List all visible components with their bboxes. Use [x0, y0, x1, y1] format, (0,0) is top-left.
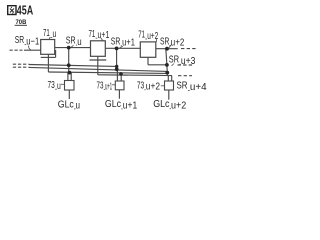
- shift-register stage box 71_u+2: [140, 42, 156, 57]
- underscore of GLc_u+1: [121, 108, 122, 110]
- riser pair into 73_u+2: [168, 76, 171, 81]
- rail A (reset line from stage u-2), dashed left entry: [13, 63, 29, 65]
- rail C from box 71_u bottom tap to SR_u+2 vertical: [48, 72, 167, 73]
- underscore of 73_u+1: [104, 89, 105, 91]
- leader SR_u: [71, 45, 74, 47]
- underscore of SR_u-1: [25, 44, 27, 46]
- kanji 図 drawn as paths: [8, 6, 16, 15]
- leader 73_u: [61, 83, 65, 85]
- bottom tap vertical of 71_u: [47, 54, 49, 72]
- junction dot SR_u+1 on wire: [115, 47, 119, 51]
- wire SR_u-1 input solid: [24, 49, 41, 51]
- svg-text:SR: SR: [111, 36, 121, 47]
- wire SR_u+1: [105, 47, 140, 49]
- riser from under-line to SR_u wire: [55, 50, 57, 57]
- svg-text:u: u: [57, 81, 61, 92]
- underscore of SR_u+1: [121, 45, 122, 47]
- svg-text:u+2: u+2: [146, 82, 161, 93]
- shift-register stage box 71_u: [41, 40, 55, 55]
- leader 73_u+2: [161, 85, 165, 87]
- svg-text:u: u: [77, 37, 81, 48]
- svg-text:73: 73: [137, 81, 145, 92]
- svg-text:GLc: GLc: [105, 99, 121, 110]
- svg-text:u+1: u+1: [123, 101, 138, 112]
- svg-text:u−1: u−1: [26, 36, 39, 47]
- svg-text:u+1: u+1: [105, 81, 112, 92]
- underscore of GLc_u: [74, 108, 75, 110]
- figure title 図45A: [8, 2, 33, 17]
- leader SR_u+2: [169, 45, 172, 48]
- junction dot rail B at SR_u+1 vertical: [115, 67, 119, 71]
- vertical SR_u+1 branch to 73_u+1: [116, 48, 119, 81]
- leader 71_u+2: [156, 39, 158, 42]
- svg-text:GLc: GLc: [58, 99, 74, 110]
- underscore of 73_u+2: [144, 89, 145, 91]
- svg-text:SR: SR: [177, 81, 188, 92]
- under-line below box 71_u: [41, 56, 56, 58]
- junction dot rail D at 73_u+1 riser: [119, 72, 123, 76]
- svg-text:71: 71: [43, 28, 50, 39]
- bottom tap vertical of 71_u+2: [147, 57, 149, 65]
- junction dot SR_u+2 on wire: [165, 47, 169, 51]
- leader 71_u+1: [101, 38, 103, 41]
- rail D dashed exit (SR_u+4): [178, 75, 192, 77]
- svg-text:u+2: u+2: [171, 37, 185, 48]
- underline of 70B: [15, 24, 27, 26]
- rail B solid part: [29, 67, 167, 71]
- underscore of SR_u: [76, 44, 77, 46]
- svg-text:GLc: GLc: [153, 99, 169, 110]
- svg-text:u: u: [76, 101, 81, 112]
- shift-register stage box 71_u+1: [91, 41, 106, 57]
- leader 71_u: [48, 37, 50, 39]
- underscore of SR_u+3: [179, 63, 180, 65]
- junction dot rail E end at SR_u+2 vertical: [165, 63, 169, 67]
- buffer box 73_u+2: [165, 81, 174, 90]
- wire SR_u-1 input dashed: [10, 49, 23, 51]
- junction dot SR_u on wire: [67, 46, 71, 50]
- underscore of 71_u: [50, 36, 52, 38]
- svg-text:u+2: u+2: [147, 31, 158, 42]
- junction dot rail A end at SR_u+1 vertical: [115, 65, 118, 68]
- output GLc_u+1 vertical: [118, 90, 120, 99]
- svg-text:u+3: u+3: [181, 56, 196, 67]
- output GLc_u+2 vertical: [168, 90, 170, 100]
- wire SR_u+2: [156, 48, 178, 50]
- svg-text:71: 71: [138, 30, 145, 41]
- svg-text:SR: SR: [160, 36, 169, 47]
- svg-text:SR: SR: [66, 36, 76, 47]
- svg-text:71: 71: [89, 29, 96, 40]
- svg-text:SR: SR: [169, 55, 179, 66]
- rail E from box 71_u+2 bottom tap: [148, 64, 167, 66]
- riser 73_u+1 second input from rail D: [120, 73, 122, 81]
- riser pair into 73_u: [68, 73, 71, 81]
- under-line below box 71_u+1: [90, 59, 107, 61]
- leader SR_u+3: [172, 64, 175, 66]
- rail B dashed left entry: [13, 66, 29, 68]
- wire SR_u: [55, 47, 91, 49]
- wire SR_u+2 dashed continuation: [181, 48, 197, 50]
- junction dot rail C at 73_u risers: [68, 71, 72, 75]
- svg-text:73: 73: [48, 80, 56, 91]
- svg-text:73: 73: [97, 80, 104, 91]
- underscore of SR_u+4: [188, 89, 190, 91]
- vertical SR_u branch to 73_u: [68, 48, 70, 73]
- underscore of 71_u+2: [145, 38, 147, 40]
- svg-text:u+1: u+1: [122, 38, 135, 49]
- underscore of GLc_u+2: [170, 108, 171, 110]
- output GLc_u vertical: [68, 90, 70, 99]
- svg-text:45A: 45A: [17, 2, 33, 17]
- underscore of 73_u: [55, 88, 57, 90]
- buffer box 73_u: [65, 81, 75, 91]
- junction dot rails B/C end at SR_u+2 vertical: [165, 71, 169, 75]
- svg-text:u: u: [53, 29, 57, 40]
- bottom tap vertical of 71_u+1: [97, 56, 99, 75]
- svg-text:u+2: u+2: [171, 101, 187, 112]
- leader SR_u-1: [29, 46, 32, 51]
- junction dot rail A / SR_u vertical: [67, 63, 71, 67]
- rail E dashed exit (SR_u+3): [178, 64, 195, 66]
- rail A solid part: [29, 65, 117, 67]
- underscore of SR_u+2: [170, 45, 171, 47]
- vertical SR_u+2 branch down: [166, 49, 168, 76]
- svg-text:u+1: u+1: [98, 30, 110, 41]
- svg-text:u+4: u+4: [190, 82, 207, 93]
- svg-text:SR: SR: [15, 35, 24, 46]
- leader 73_u+1: [112, 84, 115, 86]
- underscore of 71_u+1: [96, 37, 98, 39]
- svg-text:70B: 70B: [16, 19, 27, 26]
- leader SR_u+1: [120, 46, 123, 48]
- buffer box 73_u+1: [115, 81, 124, 90]
- rail D from box 71_u+1 bottom tap: [98, 74, 172, 77]
